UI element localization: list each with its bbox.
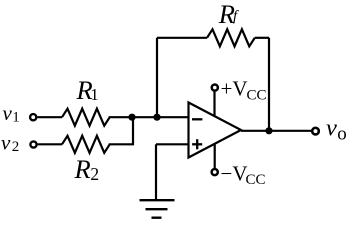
svg-text:R: R xyxy=(74,154,91,184)
wire noninverting input xyxy=(156,143,189,145)
wire v1 lead xyxy=(37,116,62,118)
op-amp U1 xyxy=(189,103,242,158)
svg-text:1: 1 xyxy=(90,85,99,104)
resistor Rf xyxy=(207,29,255,46)
wire feedback right vertical xyxy=(268,38,270,131)
svg-text:v: v xyxy=(326,114,337,141)
resistor R1 xyxy=(62,109,110,126)
wire ground vertical xyxy=(155,144,157,200)
svg-text:CC: CC xyxy=(247,88,267,104)
svg-text:v: v xyxy=(3,101,13,125)
wire feedback left vertical xyxy=(156,38,158,117)
wire v2 lead xyxy=(38,143,62,145)
wire feedback top right xyxy=(255,37,269,39)
wire +Vcc vertical xyxy=(213,92,215,117)
wire -Vcc vertical xyxy=(214,144,216,169)
node B junction dot xyxy=(153,114,160,121)
wire v2 to node A xyxy=(109,117,133,144)
svg-text:2: 2 xyxy=(90,164,99,184)
svg-text:+V: +V xyxy=(221,77,248,101)
resistor R2 xyxy=(62,136,110,153)
op-amp minus sign xyxy=(192,118,202,120)
terminal vo xyxy=(312,128,319,135)
terminal +Vcc xyxy=(212,85,218,91)
svg-text:f: f xyxy=(233,8,239,24)
svg-text:2: 2 xyxy=(12,139,19,155)
node A junction dot xyxy=(128,114,135,121)
svg-text:CC: CC xyxy=(246,172,266,188)
svg-text:o: o xyxy=(337,124,347,145)
wire output xyxy=(241,130,311,132)
terminal -Vcc xyxy=(212,169,218,175)
svg-text:−V: −V xyxy=(221,161,248,185)
wire feedback top left xyxy=(157,37,207,39)
op-amp plus sign xyxy=(192,139,202,149)
terminal v1 xyxy=(30,114,36,120)
terminal v2 xyxy=(30,141,36,147)
node C junction dot xyxy=(265,127,272,134)
svg-text:1: 1 xyxy=(12,110,20,126)
ground xyxy=(140,200,175,218)
wire node line to op-amp inverting input xyxy=(109,116,189,118)
svg-text:v: v xyxy=(1,131,11,155)
